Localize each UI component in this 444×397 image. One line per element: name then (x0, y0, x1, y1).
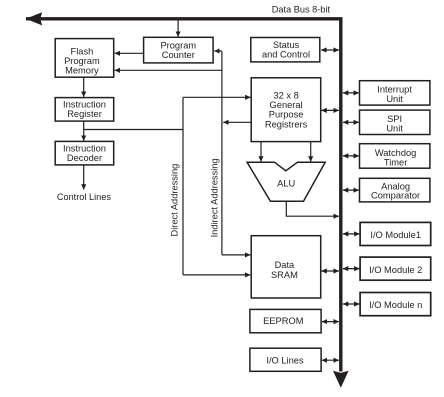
wire direct line to Registrers (183, 96, 251, 98)
svg-text:I/O Lines: I/O Lines (266, 356, 304, 366)
svg-text:Decoder: Decoder (67, 153, 102, 163)
wire Registrers to ALU right input (310, 142, 312, 162)
ALU (247, 162, 325, 201)
block Instruction Register (55, 98, 113, 122)
block Flash Program Memory (55, 39, 113, 78)
block EEPROM (250, 309, 321, 332)
label Control Lines (57, 192, 112, 202)
wire direct vertical line (182, 97, 184, 275)
svg-text:Unit: Unit (386, 94, 403, 104)
label Direct Addressing (169, 164, 179, 237)
svg-text:Registrers: Registrers (265, 119, 308, 129)
wire bus to Program Counter (177, 21, 179, 37)
wire ALU output to bus (286, 201, 339, 216)
svg-text:EEPROM: EEPROM (263, 316, 303, 326)
block Data SRAM (251, 236, 321, 298)
svg-text:Memory: Memory (65, 65, 99, 75)
data bus horizontal+vertical line (26, 19, 341, 372)
svg-text:Indirect Addressing: Indirect Addressing (210, 158, 220, 237)
wire bus to SPI Unit double arrow (343, 121, 359, 123)
wire indirect line to Program Counter (214, 50, 222, 52)
svg-text:Purpose: Purpose (269, 110, 304, 120)
svg-text:Direct Addressing: Direct Addressing (169, 164, 179, 237)
wire bus to I/O Module n double arrow (343, 303, 360, 305)
svg-text:32 x 8: 32 x 8 (273, 91, 298, 101)
wire Data SRAM to bus double arrow (321, 270, 339, 272)
wire bus to I/O Module1 double arrow (343, 233, 360, 235)
wire direct line to Data SRAM (183, 274, 250, 276)
wire bus to Watchdog Timer double arrow (343, 155, 359, 157)
block Program Counter (144, 37, 214, 63)
block I/O Lines (250, 348, 321, 371)
svg-text:and Control: and Control (262, 49, 310, 59)
svg-text:I/O Module n: I/O Module n (369, 300, 422, 310)
svg-text:Comparator: Comparator (371, 191, 420, 201)
block Instruction Decoder (55, 141, 113, 165)
svg-text:Program: Program (160, 41, 196, 51)
label Data Bus 8-bit (272, 4, 331, 14)
block Watchdog Timer (360, 144, 430, 169)
block SPI Unit (360, 110, 430, 134)
wire I/O Lines to bus double arrow (322, 359, 339, 361)
svg-text:Flash: Flash (71, 46, 94, 56)
wire indirect line to Data SRAM (222, 254, 250, 256)
block I/O Module n (360, 293, 431, 316)
svg-text:Unit: Unit (386, 124, 403, 134)
wire Registrers to ALU left input (260, 142, 262, 162)
wire Instruction Decoder to Control Lines (83, 165, 85, 190)
svg-text:Timer: Timer (384, 157, 407, 167)
wire Instruction Register to Instruction Decoder (83, 121, 85, 141)
svg-text:Register: Register (67, 109, 102, 119)
svg-text:General: General (270, 100, 303, 110)
svg-text:Control Lines: Control Lines (57, 192, 112, 202)
label Indirect Addressing (210, 158, 220, 237)
wire bus to Analog Comparator double arrow (343, 189, 359, 191)
wire Registrers to indirect line (223, 121, 251, 123)
svg-text:Program: Program (64, 56, 100, 66)
wire Program Counter to Flash (115, 52, 144, 54)
svg-text:SRAM: SRAM (271, 270, 298, 280)
svg-text:Data: Data (275, 260, 295, 270)
svg-text:I/O Module1: I/O Module1 (370, 230, 421, 240)
wire bus to Interrupt Unit double arrow (343, 92, 359, 94)
block I/O Module1 (360, 222, 431, 245)
block I/O Module 2 (360, 257, 431, 280)
svg-text:ALU: ALU (277, 179, 295, 189)
wire EEPROM to bus double arrow (322, 321, 339, 323)
wire bus to I/O Module 2 double arrow (343, 268, 360, 270)
block Interrupt Unit (360, 81, 430, 105)
svg-text:Instruction: Instruction (63, 144, 106, 154)
wire Instruction Register branch to direct line (84, 129, 183, 131)
svg-text:Counter: Counter (162, 50, 195, 60)
wire Registrers to bus double arrow (321, 109, 339, 111)
svg-text:I/O Module 2: I/O Module 2 (369, 265, 422, 275)
data bus left arrowhead (26, 12, 43, 25)
wire indirect vertical line (221, 51, 223, 255)
svg-text:Instruction: Instruction (63, 100, 106, 110)
svg-text:Data Bus 8-bit: Data Bus 8-bit (272, 4, 331, 14)
data bus bottom arrowhead (333, 371, 349, 388)
block Status and Control (251, 38, 320, 62)
wire Status and Control to bus double arrow (321, 49, 339, 51)
block 32 x 8 General Purpose Registrers (251, 78, 321, 142)
wire Flash to Instruction Register (83, 77, 85, 97)
wire indirect line to Flash (115, 69, 222, 71)
block Analog Comparator (360, 178, 430, 202)
